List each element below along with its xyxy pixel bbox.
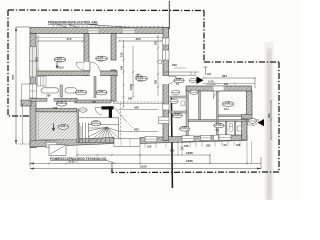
- door arc room 1.08: [214, 91, 224, 99]
- bathroom fixtures: [229, 124, 242, 133]
- wall right wing east upper: [247, 91, 253, 115]
- terrace north line: [113, 103, 163, 105]
- svg-text:420: 420: [134, 105, 139, 109]
- dim line terrace: [118, 108, 158, 110]
- door gap corridor east: [163, 76, 170, 84]
- chimney left: [21, 100, 31, 106]
- scan streak right: [265, 42, 274, 200]
- partition small room B: [169, 111, 188, 113]
- partition stub between pills: [60, 85, 63, 97]
- stair winder fan: [88, 127, 118, 142]
- room oval 1.01: [76, 89, 87, 95]
- room oval 0.04: [56, 100, 66, 106]
- wall interior horizontal y72: [36, 71, 117, 76]
- svg-text:945: 945: [267, 113, 271, 118]
- window bottom right wing 1: [182, 136, 194, 141]
- valve symbol: [181, 147, 184, 151]
- wall bottom left wing: [30, 138, 114, 148]
- door arc hall: [90, 62, 100, 71]
- svg-text:1.02: 1.02: [98, 89, 104, 93]
- dim line bottom B: [30, 168, 261, 170]
- room oval 1.02: [96, 89, 107, 95]
- svg-text:1.01: 1.01: [78, 89, 84, 93]
- dim line room 1.06: [118, 40, 162, 42]
- svg-text:705: 705: [11, 75, 15, 80]
- svg-text:1366: 1366: [186, 159, 193, 163]
- door gap wall 1.03 east: [84, 62, 90, 70]
- svg-text:465: 465: [136, 37, 141, 41]
- flag mark above entrance: [204, 67, 208, 75]
- wall top: [30, 28, 169, 34]
- entrance arrow east: [258, 119, 264, 126]
- stair leader diagonal: [114, 107, 127, 122]
- svg-text:1366: 1366: [186, 151, 193, 155]
- dim line room 1.03: [37, 40, 84, 42]
- extension ticks bottom: [30, 141, 252, 169]
- window left wall upper: [30, 47, 37, 78]
- dim line left vertical: [16, 27, 30, 144]
- sill line room 1.03: [36, 36, 84, 38]
- door gap hall: [90, 71, 100, 77]
- door right extension: [248, 120, 259, 126]
- svg-text:346: 346: [128, 98, 133, 101]
- section line bottom: [171, 97, 172, 188]
- corridor south wall left: [30, 98, 47, 101]
- property boundary right upper: [203, 11, 205, 63]
- svg-text:12,4: 12,4: [98, 59, 103, 62]
- property boundary top: [8, 9, 204, 12]
- svg-text:340: 340: [121, 65, 124, 70]
- column circle: [158, 60, 162, 64]
- svg-text:255: 255: [155, 79, 158, 84]
- svg-text:16,2: 16,2: [58, 65, 64, 69]
- room oval 1.20b: [180, 125, 190, 131]
- dim line bottom C: [76, 154, 211, 164]
- svg-text:18,4: 18,4: [224, 108, 229, 111]
- svg-text:280: 280: [47, 95, 52, 98]
- leader 2: [88, 24, 156, 29]
- door arc corridor: [169, 76, 176, 83]
- room oval 0.05: [52, 123, 69, 130]
- svg-text:346: 346: [236, 143, 241, 147]
- partition bath north: [218, 115, 241, 117]
- window left wall: [30, 84, 37, 98]
- stair landing lines: [79, 118, 119, 143]
- svg-text:155: 155: [53, 106, 58, 110]
- detail marker B1: [136, 74, 141, 80]
- partition small room A: [170, 96, 187, 98]
- svg-text:250: 250: [92, 101, 97, 104]
- property boundary left: [8, 10, 31, 116]
- bottom label text: [50, 157, 115, 164]
- section line top: [168, 1, 170, 29]
- dim chain x271: [270, 100, 272, 140]
- wall right wing north: [186, 86, 252, 91]
- dim line 697: [202, 77, 256, 88]
- window mid wall 3: [159, 117, 170, 124]
- property boundary bottom: [112, 167, 279, 173]
- paper background: [0, 0, 300, 200]
- ticks under right wing: [145, 140, 240, 148]
- svg-text:0.03: 0.03: [176, 77, 182, 81]
- wall left: [30, 34, 36, 148]
- wall middle vertical: [163, 28, 169, 141]
- corridor south wall right: [54, 98, 77, 101]
- wall interior 1.04 east lower: [111, 70, 116, 101]
- counter pill 2: [65, 88, 77, 93]
- stair wall black horizontal: [102, 106, 114, 109]
- hatched room 0.05: [38, 112, 77, 140]
- svg-text:0.05: 0.05: [60, 123, 66, 127]
- svg-text:697: 697: [222, 74, 227, 78]
- svg-text:310: 310: [34, 57, 38, 62]
- stair wall black vertical: [109, 106, 112, 117]
- title text: [48, 20, 98, 24]
- dim line bottom A: [30, 157, 261, 169]
- wall bottom right wing: [140, 135, 247, 144]
- counter pill 1: [41, 88, 59, 93]
- room oval small hall: [79, 108, 87, 112]
- wall stair west: [77, 110, 79, 143]
- fixture small room: [181, 101, 185, 106]
- window mid wall 1: [163, 50, 170, 60]
- svg-text:1.04: 1.04: [98, 55, 104, 59]
- svg-text:1.10: 1.10: [216, 122, 222, 126]
- door gap room 1.08: [214, 86, 224, 90]
- svg-text:378: 378: [184, 144, 189, 148]
- dim line 697 lower: [203, 82, 255, 84]
- room oval 1.10: [214, 122, 224, 128]
- svg-text:120: 120: [120, 52, 124, 57]
- window bottom left wing: [46, 142, 57, 147]
- sill line room 1.06: [116, 36, 163, 38]
- dim line room 1.03 vertical: [37, 36, 39, 71]
- partition right wing E: [226, 122, 227, 135]
- room oval 1.08: [223, 100, 234, 106]
- svg-text:118: 118: [207, 73, 212, 76]
- window top 3: [122, 28, 135, 33]
- wall right wing step: [242, 115, 253, 120]
- wall interior 1.03 east: [84, 34, 89, 76]
- window bottom right wing 1c: [214, 135, 219, 140]
- room oval 1.20a: [173, 112, 183, 118]
- entry porch lines: [163, 72, 199, 75]
- svg-text:472: 472: [67, 37, 72, 41]
- room oval 1.03: [54, 56, 66, 63]
- terrace steps south-middle: [114, 139, 140, 147]
- door arc 1.03: [76, 62, 84, 70]
- svg-text:1.06: 1.06: [138, 75, 144, 79]
- svg-text:1.03: 1.03: [57, 56, 63, 60]
- room oval 0.01 stair: [91, 120, 101, 126]
- room oval 0.16: [170, 99, 178, 104]
- svg-text:2150: 2150: [140, 165, 147, 169]
- wall interior 1.04 east upper: [111, 34, 116, 61]
- property boundary jog: [204, 61, 279, 63]
- room oval 1.06: [136, 75, 148, 82]
- room oval 1.04: [96, 55, 108, 62]
- bay outside left: [22, 84, 30, 100]
- dim chain x133: [132, 46, 134, 98]
- cupboard room 1.01: [38, 77, 47, 87]
- wall partition rooms y76-98: [94, 76, 96, 98]
- svg-text:0.04: 0.04: [58, 100, 64, 104]
- wall lower-left room north: [36, 108, 77, 112]
- svg-text:160: 160: [147, 145, 152, 149]
- partition right wing A: [186, 91, 188, 137]
- steps south-west: [49, 145, 66, 156]
- area arrow 1.03: [56, 63, 58, 69]
- svg-text:1.05: 1.05: [208, 80, 214, 84]
- svg-text:PRZEBUDOWA INSTALACJI WOD. KAN: PRZEBUDOWA INSTALACJI WOD. KAN.: [48, 20, 98, 24]
- leader 3: [58, 25, 67, 28]
- svg-text:0.01: 0.01: [93, 120, 99, 124]
- svg-text:17,9: 17,9: [57, 60, 62, 63]
- svg-text:21,3: 21,3: [138, 79, 143, 82]
- svg-text:1.20: 1.20: [182, 125, 188, 129]
- door arc stair: [95, 108, 102, 115]
- window top 2: [88, 28, 99, 33]
- svg-text:290: 290: [224, 83, 229, 86]
- entrance arrow right wing: [197, 77, 204, 85]
- svg-text:470: 470: [134, 128, 139, 132]
- small marks upper right wing: [174, 68, 216, 85]
- leader 1: [69, 25, 89, 31]
- room oval 1.09: [249, 119, 257, 124]
- dim chain x158: [157, 35, 159, 96]
- svg-text:1.08: 1.08: [225, 100, 231, 104]
- window bottom right wing 0: [145, 136, 157, 141]
- stair dashed wall east: [120, 104, 122, 141]
- tick slashes bottom lines: [29, 154, 248, 165]
- stair walk line: [80, 126, 82, 140]
- property boundary right: [278, 62, 280, 172]
- svg-text:1005: 1005: [129, 83, 133, 90]
- partition right wing C horizontal: [189, 120, 247, 122]
- svg-text:POMIESZCZENIA WOD.TECHNOLOG.: POMIESZCZENIA WOD.TECHNOLOG.: [50, 157, 107, 161]
- partition right wing F: [235, 122, 236, 135]
- svg-text:239: 239: [172, 63, 177, 67]
- wall corridor horizontal y100: [75, 100, 111, 103]
- oval entrance: [189, 78, 196, 82]
- room oval 0.17: [172, 90, 180, 94]
- window mid wall 2: [163, 104, 170, 110]
- dim line left secondary: [21, 103, 23, 145]
- svg-text:292: 292: [206, 143, 211, 147]
- window bottom right wing 2: [219, 135, 231, 140]
- wall right wing east lower: [242, 119, 248, 140]
- svg-text:180: 180: [155, 40, 158, 45]
- partition right wing D: [217, 91, 219, 135]
- eaves dashed line: [52, 25, 163, 27]
- dim chain x123: [122, 40, 124, 108]
- stair straight flight: [80, 123, 89, 143]
- dim line terrace b: [118, 131, 158, 133]
- room oval 0.03: [174, 77, 184, 83]
- partition right wing B: [199, 91, 201, 121]
- room oval 0.20: [190, 90, 198, 94]
- window bottom right wing 1b: [201, 135, 212, 140]
- window mid wall 0: [163, 38, 170, 45]
- svg-text:525: 525: [170, 148, 175, 152]
- dashed ceiling line center: [113, 101, 163, 103]
